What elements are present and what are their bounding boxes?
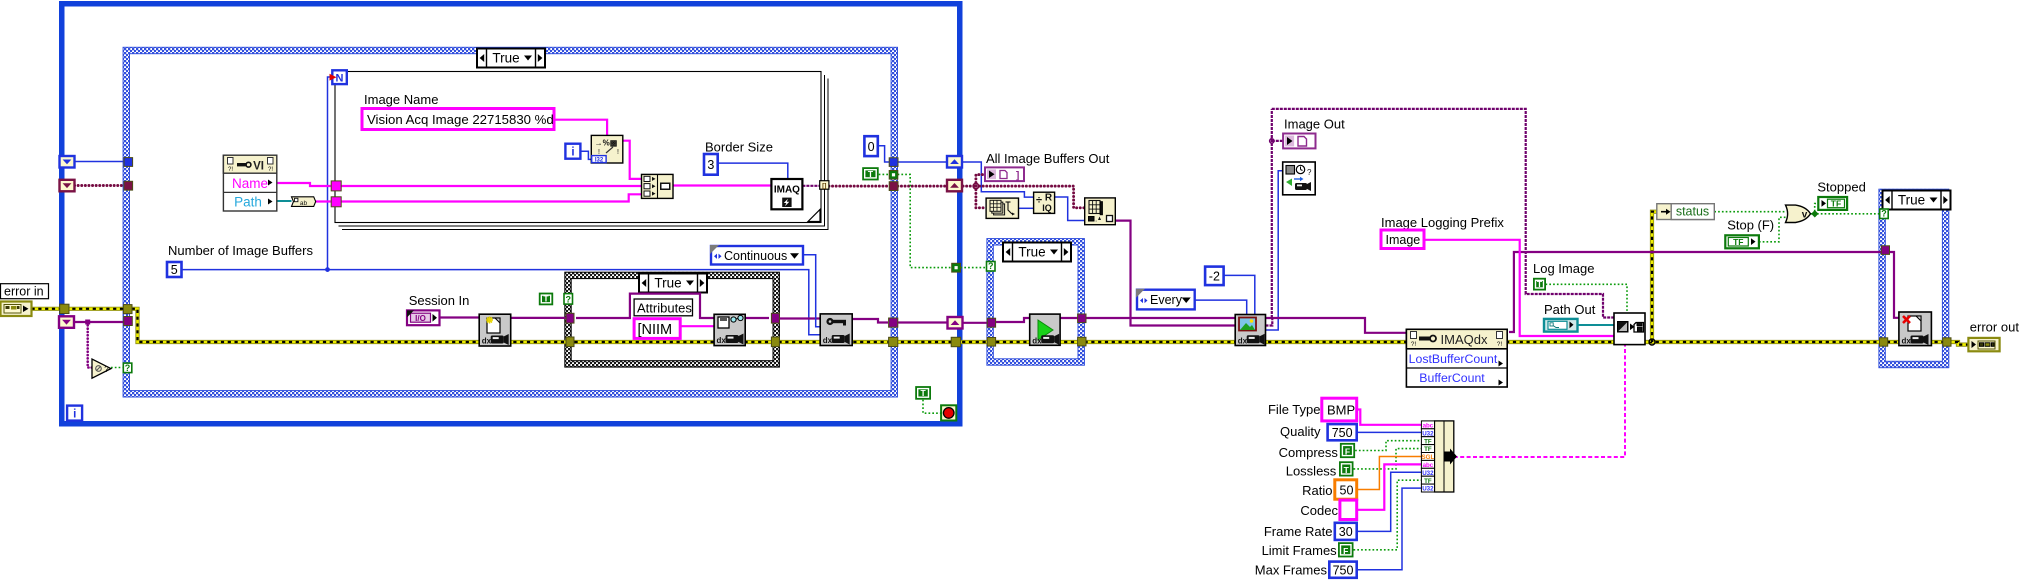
unbundle by name status bbox=[1657, 204, 1715, 220]
property node IMAQdx bbox=[1406, 329, 1507, 387]
wire junction dot at 5-wire bbox=[325, 267, 330, 272]
tunnel session case2 left bbox=[987, 318, 995, 327]
tunnel error case4 right bbox=[1943, 338, 1951, 346]
VI server property node bbox=[223, 155, 276, 211]
selector tunnel case4 bbox=[1880, 209, 1889, 219]
svg-text:TF: TF bbox=[1831, 199, 1841, 209]
svg-text:Image Out: Image Out bbox=[1284, 117, 1345, 132]
tunnel error case3 right bbox=[771, 337, 779, 347]
bundle cluster node bbox=[1421, 421, 1457, 493]
wire number of buffers bbox=[181, 270, 820, 335]
shift register SR2 right bbox=[947, 180, 962, 192]
wire session attr icon to tunnel bbox=[745, 317, 769, 319]
svg-text:Compress: Compress bbox=[1279, 445, 1339, 460]
tunnel error in on loop bbox=[60, 304, 69, 313]
svg-text:T: T bbox=[1537, 279, 1543, 289]
numeric constant 5 bbox=[167, 262, 182, 277]
label image name bbox=[364, 92, 438, 107]
wire log image bbox=[1546, 284, 1628, 313]
svg-text:status: status bbox=[1676, 205, 1709, 219]
tunnel error case3 left bbox=[566, 337, 574, 347]
svg-text:IQ: IQ bbox=[1042, 203, 1052, 213]
wire codec to bundle bbox=[1357, 464, 1422, 509]
case structure 3 selector label True bbox=[639, 274, 707, 293]
svg-text:→%▩: →%▩ bbox=[595, 139, 618, 148]
wire T to case tunnel bbox=[879, 173, 890, 175]
wire session config to attr case bbox=[511, 317, 568, 319]
case structure 3 border bbox=[565, 272, 780, 367]
wire limit frames to bundle bbox=[1354, 480, 1422, 550]
label all image buffers out bbox=[986, 151, 1110, 166]
boolean constant T log image bbox=[1533, 278, 1546, 291]
label image logging prefix bbox=[1381, 215, 1504, 230]
wire session out of loop bbox=[961, 322, 987, 324]
label attributes bbox=[637, 301, 692, 316]
svg-text:i: i bbox=[571, 147, 574, 159]
svg-text:Path Out: Path Out bbox=[1544, 302, 1596, 317]
svg-text:True: True bbox=[1898, 192, 1925, 207]
wire format output to concat bbox=[623, 141, 642, 179]
wire image out stub bbox=[1266, 318, 1273, 326]
wire error inside case down bbox=[132, 309, 1968, 345]
or gate bbox=[1786, 205, 1811, 222]
svg-text:Ratio: Ratio bbox=[1302, 483, 1332, 498]
tunnel error case4 left bbox=[1880, 338, 1888, 346]
svg-text:Log Image: Log Image bbox=[1533, 261, 1594, 276]
string constant Image bbox=[1381, 230, 1424, 249]
boolean constant T to case2 bbox=[862, 167, 879, 180]
svg-text:Limit Frames: Limit Frames bbox=[1262, 543, 1338, 558]
index array icon bbox=[1085, 198, 1116, 225]
string constant codec empty bbox=[1340, 500, 1357, 519]
svg-text:T: T bbox=[543, 294, 549, 304]
svg-text:30: 30 bbox=[1339, 525, 1353, 539]
wire image array out of for loop bbox=[829, 185, 889, 188]
wire image array to index bbox=[976, 186, 1085, 208]
svg-text:dx: dx bbox=[823, 336, 833, 345]
tunnel boolean on case1 right bbox=[889, 171, 898, 180]
shift register SR3 right bbox=[948, 317, 963, 329]
error in control terminal bbox=[1, 302, 32, 317]
wire session branch down to refnum check bbox=[88, 322, 92, 368]
svg-text:Name: Name bbox=[232, 176, 268, 191]
label border size bbox=[705, 140, 773, 155]
tunnel session on case1 left bbox=[124, 317, 133, 326]
wire image to image out indicator bbox=[1272, 140, 1283, 142]
wire name to concat bbox=[341, 185, 641, 187]
IMAQdx start acquisition VI icon bbox=[1030, 314, 1060, 345]
svg-text:750: 750 bbox=[1333, 563, 1354, 577]
for loop count terminal N bbox=[330, 70, 347, 84]
wire IMAQ create image out bbox=[802, 185, 819, 187]
IMAQ write file VI icon bbox=[1614, 313, 1645, 345]
tunnel session case3 right bbox=[771, 313, 779, 323]
wire compress to bundle bbox=[1355, 441, 1421, 451]
wire lossless to bundle bbox=[1354, 449, 1422, 469]
svg-text:True: True bbox=[1018, 244, 1045, 259]
svg-text:÷: ÷ bbox=[1036, 195, 1042, 207]
concatenate strings icon bbox=[642, 174, 674, 198]
svg-text:3: 3 bbox=[707, 158, 714, 172]
tunnel error case2 right bbox=[1078, 337, 1086, 346]
wire i terminal to format bbox=[581, 151, 592, 159]
wire attributes string to icon bbox=[680, 325, 714, 327]
wire session to SR3 right bbox=[898, 321, 947, 323]
tunnel session case2 right bbox=[1078, 314, 1086, 323]
wire reshape to divide bbox=[1019, 207, 1034, 209]
wire VI name string bbox=[277, 183, 341, 186]
error out indicator terminal bbox=[1968, 338, 1999, 351]
svg-text:Max Frames: Max Frames bbox=[1255, 563, 1328, 578]
tunnel image array on case1 right bbox=[889, 182, 898, 191]
tunnel blue on case1 left bbox=[124, 158, 133, 167]
shift register SR2 left bbox=[60, 180, 75, 192]
svg-text:T: T bbox=[920, 388, 926, 398]
numeric constant 750 max frames bbox=[1329, 562, 1356, 578]
wire zero outside case bbox=[898, 161, 947, 163]
svg-text:F: F bbox=[1345, 447, 1350, 457]
svg-text:Frame Rate: Frame Rate bbox=[1264, 524, 1333, 539]
wire session in case4 bbox=[1889, 252, 1899, 318]
wire image name constant to format bbox=[554, 120, 607, 136]
shift register SR3 left bbox=[59, 316, 74, 328]
tunnel name into for loop bbox=[331, 181, 341, 191]
tunnel image out of for loop (indexing disabled) bbox=[820, 181, 829, 190]
tunnel zero on case1 right bbox=[889, 158, 898, 167]
svg-text:?: ? bbox=[566, 294, 572, 304]
svg-text:?: ? bbox=[988, 261, 994, 271]
for loop frame bbox=[335, 72, 828, 230]
wire image array out bbox=[963, 185, 976, 188]
label frame rate bbox=[1264, 524, 1333, 539]
label file type bbox=[1268, 402, 1321, 417]
label stopped bbox=[1817, 180, 1865, 195]
IMAQdx get image VI icon bbox=[1235, 315, 1265, 346]
label compress bbox=[1279, 445, 1339, 460]
svg-text:?!: ?! bbox=[228, 167, 233, 173]
wire cluster to write icon bbox=[1454, 345, 1625, 457]
enum constant Every bbox=[1136, 289, 1195, 310]
shift register SR1 left bbox=[60, 156, 75, 168]
all image buffers out indicator bbox=[985, 167, 1024, 181]
wire or to junction bbox=[1811, 213, 1818, 215]
wire path out bbox=[1577, 324, 1614, 326]
svg-text:0: 0 bbox=[868, 140, 875, 154]
not a refnum check icon bbox=[92, 359, 111, 378]
label ratio bbox=[1302, 483, 1332, 498]
image out indicator bbox=[1283, 134, 1315, 149]
svg-text:VI: VI bbox=[253, 161, 264, 173]
svg-text:Vision Acq Image 22715830 %d: Vision Acq Image 22715830 %d bbox=[367, 112, 554, 127]
svg-text:Codec: Codec bbox=[1300, 503, 1338, 518]
wire path to concat bbox=[341, 194, 641, 201]
case structure 4 border bbox=[1879, 189, 1949, 368]
svg-text:True: True bbox=[492, 50, 519, 65]
svg-text:IMAQ: IMAQ bbox=[774, 184, 800, 195]
svg-text:IMAQdx: IMAQdx bbox=[1441, 332, 1488, 347]
svg-text:dx: dx bbox=[1902, 337, 1912, 346]
tunnel session case4 left bbox=[1881, 246, 1889, 255]
path to string icon bbox=[292, 197, 316, 207]
wire session snap to property node bbox=[1266, 318, 1407, 333]
wire every enum to snap bbox=[1195, 300, 1247, 314]
svg-text:Stop (F): Stop (F) bbox=[1727, 218, 1774, 233]
svg-text:?: ? bbox=[1881, 209, 1887, 219]
wire session in case2 bbox=[995, 318, 1029, 322]
wire stop constant bbox=[923, 400, 941, 414]
svg-text:All Image Buffers Out: All Image Buffers Out bbox=[986, 151, 1110, 166]
label lossless bbox=[1286, 464, 1337, 479]
tunnel error on loop right bbox=[951, 337, 960, 346]
wire session around attributes label bbox=[576, 294, 714, 318]
case structure 4 selector label True bbox=[1883, 191, 1951, 210]
svg-text:i: i bbox=[73, 409, 76, 421]
svg-text:T: T bbox=[868, 169, 874, 179]
wire minus2 to snap bbox=[1224, 275, 1255, 314]
svg-text:TF: TF bbox=[1733, 237, 1743, 247]
svg-text:dx: dx bbox=[482, 337, 492, 346]
wire iteration count out bbox=[962, 162, 1034, 197]
error wire junction bbox=[1649, 339, 1655, 345]
string constant NIIM bbox=[634, 319, 680, 339]
svg-text:T: T bbox=[1344, 465, 1350, 475]
wire image array to indicator bbox=[976, 175, 985, 187]
svg-text:ab: ab bbox=[300, 200, 308, 207]
label image out bbox=[1284, 117, 1345, 132]
svg-text:Quality: Quality bbox=[1280, 424, 1321, 439]
numeric constant 3 border size bbox=[704, 154, 718, 175]
svg-text:750: 750 bbox=[1332, 426, 1353, 440]
quotient and remainder icon bbox=[1034, 192, 1055, 213]
svg-text:Image: Image bbox=[1386, 233, 1421, 247]
wire concat to IMAQ create bbox=[673, 184, 771, 186]
svg-text:v: v bbox=[1802, 210, 1808, 221]
wire divide R to index bbox=[1055, 197, 1085, 221]
wire error in to loop bbox=[32, 307, 125, 311]
label session in bbox=[409, 293, 470, 308]
string constant Vision Acq Image bbox=[362, 109, 554, 130]
svg-text:[NIIM: [NIIM bbox=[638, 322, 673, 338]
stopped indicator terminal bbox=[1818, 197, 1847, 210]
wire index image to snap bbox=[1115, 221, 1235, 326]
tunnel path into for loop bbox=[331, 197, 341, 207]
svg-text:I32: I32 bbox=[595, 158, 604, 164]
wire ratio to bundle bbox=[1357, 457, 1422, 490]
svg-text:?: ? bbox=[104, 365, 109, 374]
wire SR1 left to case bbox=[75, 161, 125, 163]
svg-text:LostBufferCount: LostBufferCount bbox=[1409, 352, 1498, 366]
attributes label box bbox=[634, 299, 692, 316]
svg-text:I/O: I/O bbox=[415, 314, 426, 323]
string constant BMP bbox=[1322, 398, 1357, 421]
wire session prop node out bbox=[1509, 252, 1882, 332]
numeric constant 50 ratio bbox=[1335, 480, 1357, 499]
svg-text:.: . bbox=[1095, 215, 1097, 224]
tunnel boolean on loop right bbox=[952, 263, 961, 272]
label number of image buffers bbox=[168, 243, 313, 258]
svg-text:?!: ?! bbox=[268, 167, 273, 173]
wire boolean to loop edge bbox=[898, 174, 952, 267]
svg-text:F: F bbox=[1343, 546, 1348, 556]
wire refnum check to case selector bbox=[111, 367, 123, 369]
svg-text:[]: [] bbox=[822, 183, 826, 190]
boolean junction bbox=[1811, 210, 1818, 217]
svg-text:50: 50 bbox=[1340, 483, 1354, 497]
label stop F bbox=[1727, 218, 1774, 233]
IMAQdx close camera VI icon bbox=[1899, 312, 1932, 346]
tunnel error in on case bbox=[123, 305, 132, 314]
svg-text:?: ? bbox=[125, 363, 131, 373]
wire image top route to write bbox=[1272, 109, 1614, 318]
wire number of buffers to N bbox=[328, 77, 332, 270]
svg-text:error in: error in bbox=[4, 285, 44, 299]
wire boolean to case2 selector bbox=[961, 267, 987, 269]
svg-text:Image Logging Prefix: Image Logging Prefix bbox=[1381, 215, 1504, 230]
stop F control terminal bbox=[1725, 235, 1759, 248]
reshape array icon bbox=[986, 198, 1018, 218]
wire session in to config bbox=[440, 316, 480, 318]
svg-text:True: True bbox=[654, 275, 681, 290]
label error out bbox=[1970, 320, 2020, 335]
boolean constant T near stop bbox=[915, 386, 931, 400]
svg-text:File Type: File Type bbox=[1268, 402, 1321, 417]
IMAQdx write attributes VI icon bbox=[714, 314, 745, 345]
selector tunnel case3 bbox=[564, 294, 573, 305]
svg-text:Continuous: Continuous bbox=[724, 249, 787, 263]
svg-text:BMP: BMP bbox=[1327, 403, 1355, 418]
wire frame rate to bundle bbox=[1357, 472, 1422, 531]
boolean constant F compress bbox=[1340, 443, 1355, 458]
image wire junction bbox=[1270, 139, 1274, 143]
wire session SR3 to case tunnel bbox=[73, 321, 124, 323]
wire session case2 to snap bbox=[1060, 317, 1235, 319]
case structure 1 border bbox=[123, 47, 897, 397]
label error in bbox=[1, 284, 49, 299]
label path out bbox=[1544, 302, 1596, 317]
svg-text:dx: dx bbox=[717, 336, 727, 345]
session in control terminal bbox=[407, 310, 440, 325]
shift register SR1 right bbox=[947, 156, 962, 168]
wire image array to reshape bbox=[976, 186, 986, 208]
while loop bbox=[62, 4, 960, 424]
svg-text:dx: dx bbox=[1238, 336, 1248, 345]
tunnel maroon on case1 left bbox=[124, 181, 133, 190]
IMAQdx configure grab VI icon bbox=[820, 314, 852, 346]
wire image array to SR2 right bbox=[898, 185, 947, 188]
image array junction bbox=[973, 183, 978, 188]
wire VI path bbox=[277, 200, 292, 202]
wire file type to bundle bbox=[1357, 410, 1422, 425]
wire quality to bundle bbox=[1357, 431, 1422, 433]
numeric constant -2 bbox=[1205, 267, 1224, 286]
numeric constant 0 bbox=[864, 136, 877, 156]
svg-text:Stopped: Stopped bbox=[1817, 180, 1865, 195]
numeric constant 30 frame rate bbox=[1335, 523, 1357, 540]
label log image bbox=[1533, 261, 1594, 276]
wire zero to SR1 right bbox=[878, 146, 889, 162]
wire stop F to or bbox=[1759, 217, 1787, 242]
svg-text:Every: Every bbox=[1150, 293, 1183, 307]
boolean constant F limit frames bbox=[1338, 542, 1354, 557]
wire boolean to case4 selector bbox=[1817, 213, 1880, 215]
tunnel session case3 left bbox=[566, 313, 574, 323]
svg-text:!: ! bbox=[617, 149, 619, 156]
svg-text:R: R bbox=[1045, 193, 1053, 204]
tunnel error on case1 right bbox=[889, 337, 898, 346]
label limit frames bbox=[1262, 543, 1338, 558]
svg-text:?: ? bbox=[1307, 168, 1312, 177]
svg-text:Lossless: Lossless bbox=[1286, 464, 1337, 479]
tunnel session on case1 right bbox=[889, 318, 898, 327]
wire session grabcfg to case tunnel bbox=[852, 319, 888, 323]
loop iteration terminal i bbox=[67, 406, 82, 421]
boolean constant T attributes case bbox=[539, 293, 553, 306]
svg-text:?!: ?! bbox=[1497, 341, 1503, 348]
svg-text:Attributes: Attributes bbox=[637, 301, 692, 316]
wire image prefix bbox=[1424, 240, 1614, 336]
enum constant Continuous bbox=[710, 245, 803, 265]
case structure 2 selector label True bbox=[1003, 243, 1071, 262]
wire path string to for loop bbox=[316, 200, 342, 202]
svg-text:Number of Image Buffers: Number of Image Buffers bbox=[168, 243, 313, 258]
svg-text:Border Size: Border Size bbox=[705, 140, 773, 155]
wire session to grab config bbox=[778, 317, 821, 319]
selector tunnel case1 bbox=[123, 363, 132, 373]
session branch junction bbox=[85, 320, 90, 325]
svg-text:-2: -2 bbox=[1209, 269, 1220, 283]
numeric constant 750 quality bbox=[1328, 424, 1357, 440]
svg-text:U32: U32 bbox=[1422, 486, 1434, 493]
case structure 2 border bbox=[987, 239, 1085, 366]
path out control terminal bbox=[1544, 319, 1578, 332]
wire error branch up to status unbundle bbox=[1652, 212, 1658, 342]
svg-text:Path: Path bbox=[234, 195, 262, 210]
svg-text:Image Name: Image Name bbox=[364, 92, 438, 107]
tunnel error case2 left bbox=[987, 338, 995, 347]
format into string icon bbox=[591, 135, 623, 163]
case structure 1 selector label True bbox=[477, 49, 545, 68]
wire SR2 left to case bbox=[75, 184, 125, 187]
svg-text:]: ] bbox=[1016, 171, 1019, 182]
wire border size bbox=[718, 163, 788, 179]
svg-text:5: 5 bbox=[171, 263, 178, 277]
loop condition stop terminal bbox=[941, 405, 956, 420]
svg-text:error out: error out bbox=[1970, 320, 2020, 335]
for loop iteration terminal i bbox=[565, 144, 580, 159]
svg-text:BufferCount: BufferCount bbox=[1419, 371, 1485, 385]
svg-text:N: N bbox=[336, 72, 344, 84]
label quality bbox=[1280, 424, 1321, 439]
wire continuous enum bbox=[803, 255, 820, 327]
label codec bbox=[1300, 503, 1338, 518]
IMAQdx utility icon bbox=[1283, 162, 1316, 195]
boolean constant T lossless bbox=[1339, 461, 1354, 476]
selector tunnel case2 bbox=[987, 261, 996, 271]
wire max frames to bundle bbox=[1357, 488, 1422, 570]
label max frames bbox=[1255, 563, 1328, 578]
wire junction to stopped bbox=[1815, 204, 1819, 212]
svg-text:Session In: Session In bbox=[409, 293, 470, 308]
wire status to or bbox=[1714, 211, 1786, 213]
IMAQdx configure acquisition VI icon bbox=[479, 314, 511, 346]
svg-text:dx: dx bbox=[1032, 336, 1042, 345]
wire buffer number to wait icon bbox=[1266, 171, 1283, 330]
wire image vertical bbox=[1271, 109, 1273, 318]
IMAQ Create icon bbox=[771, 179, 802, 209]
svg-text:?!: ?! bbox=[1411, 341, 1417, 348]
